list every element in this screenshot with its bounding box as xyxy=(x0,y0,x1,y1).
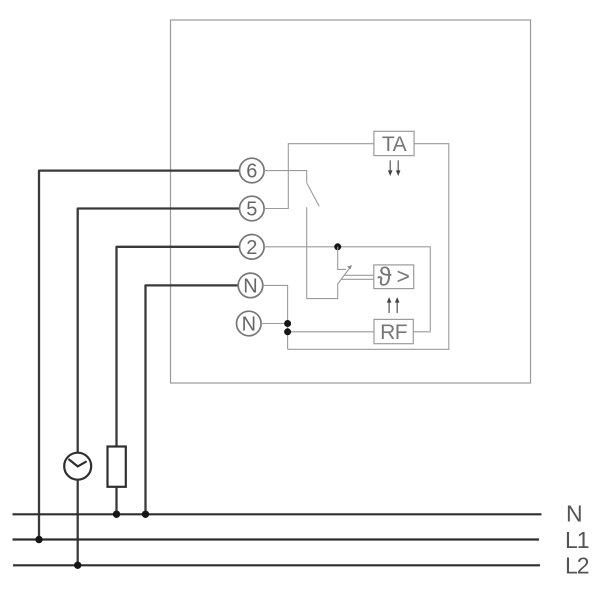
wire resistor to N bus xyxy=(115,487,117,515)
L2 bus line xyxy=(13,564,540,566)
RF box xyxy=(374,319,413,344)
svg-text:ϑ: ϑ xyxy=(377,262,392,292)
thermostat fixed contact xyxy=(338,247,346,270)
svg-text:L1: L1 xyxy=(565,527,589,553)
terminal 5 xyxy=(240,196,265,221)
junction dot L1 / terminal-6 branch xyxy=(35,536,42,543)
L1 bus line xyxy=(13,538,540,540)
svg-text:N: N xyxy=(243,275,257,297)
svg-text:TA: TA xyxy=(382,133,407,156)
svg-text:>: > xyxy=(397,263,410,289)
switch common line down xyxy=(307,207,338,298)
svg-text:5: 5 xyxy=(246,199,257,221)
junction dot N vertical / terminal N lower xyxy=(284,320,291,327)
svg-text:N: N xyxy=(242,314,256,336)
N bus line xyxy=(13,513,542,515)
terminal 2 xyxy=(240,235,265,260)
thermostat box ϑ> xyxy=(374,262,414,292)
terminal N (upper) xyxy=(238,273,263,298)
svg-text:N: N xyxy=(566,501,583,527)
svg-text:6: 6 xyxy=(246,161,257,183)
device outline box xyxy=(171,20,531,383)
wire lead from terminal 2 to resistor xyxy=(117,247,240,447)
switch blade (open contact) xyxy=(307,183,319,206)
wire lead from terminal N to N bus xyxy=(146,285,239,514)
wire clock to L2 xyxy=(77,480,79,566)
mechanical linkage (double line) xyxy=(341,275,374,279)
svg-text:2: 2 xyxy=(246,237,257,259)
wire terminal 2 across to right side xyxy=(264,247,430,332)
wire terminal N upper to vertical node xyxy=(263,285,288,349)
wire terminal 6 to switch contact xyxy=(264,171,307,184)
clock symbol (time switch) xyxy=(64,453,91,480)
terminal 6 xyxy=(240,158,265,183)
wire TA right side down and across to N node xyxy=(288,144,449,350)
terminal N (lower) xyxy=(237,311,262,336)
wire terminal N lower to vertical node xyxy=(261,323,288,325)
junction dot N vertical / RF wire xyxy=(284,328,291,335)
svg-text:L2: L2 xyxy=(565,553,589,579)
wire terminal 5 up to TA xyxy=(264,144,374,209)
RF signal arrows (up) xyxy=(387,297,400,313)
wire RF left to N node xyxy=(288,331,374,333)
wire RF right to node of terminal 2 xyxy=(413,331,430,333)
junction dot L2 / clock branch xyxy=(74,562,81,569)
TA signal arrows (down) xyxy=(388,160,401,176)
wire lead from terminal 6 to L1 xyxy=(39,171,240,540)
resistor (load) xyxy=(108,447,126,487)
thermostat blade with arrow tip xyxy=(338,265,352,284)
svg-text:RF: RF xyxy=(380,321,407,344)
TA box xyxy=(374,131,414,156)
wire lead from terminal 5 to clock xyxy=(78,209,240,453)
junction dot on wire 2 xyxy=(334,243,341,250)
junction dot N bus / terminal-N branch xyxy=(142,511,149,518)
junction dot N bus / resistor branch xyxy=(113,511,120,518)
